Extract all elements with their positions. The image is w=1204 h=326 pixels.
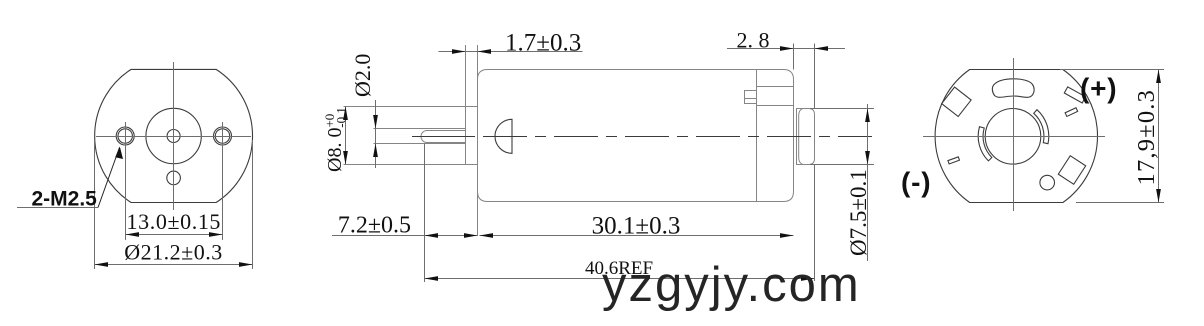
svg-text:17,9±0.3: 17,9±0.3 bbox=[1133, 89, 1160, 186]
svg-text:30.1±0.3: 30.1±0.3 bbox=[592, 213, 681, 240]
svg-text:Ø8. 0+0-0.1: Ø8. 0+0-0.1 bbox=[322, 107, 349, 172]
svg-text:Ø7.5±0.1: Ø7.5±0.1 bbox=[846, 169, 871, 256]
svg-text:yzgyjy.com: yzgyjy.com bbox=[602, 258, 861, 312]
svg-text:2. 8: 2. 8 bbox=[737, 28, 770, 53]
svg-text:7.2±0.5: 7.2±0.5 bbox=[338, 213, 411, 239]
svg-text:13.0±0.15: 13.0±0.15 bbox=[127, 209, 221, 234]
svg-text:(-): (-) bbox=[901, 167, 931, 198]
svg-text:Ø21.2±0.3: Ø21.2±0.3 bbox=[124, 240, 222, 265]
svg-text:2-M2.5: 2-M2.5 bbox=[32, 188, 98, 211]
svg-text:Ø2.0: Ø2.0 bbox=[350, 54, 375, 97]
svg-text:1.7±0.3: 1.7±0.3 bbox=[505, 30, 581, 57]
svg-text:(+): (+) bbox=[1080, 73, 1117, 104]
